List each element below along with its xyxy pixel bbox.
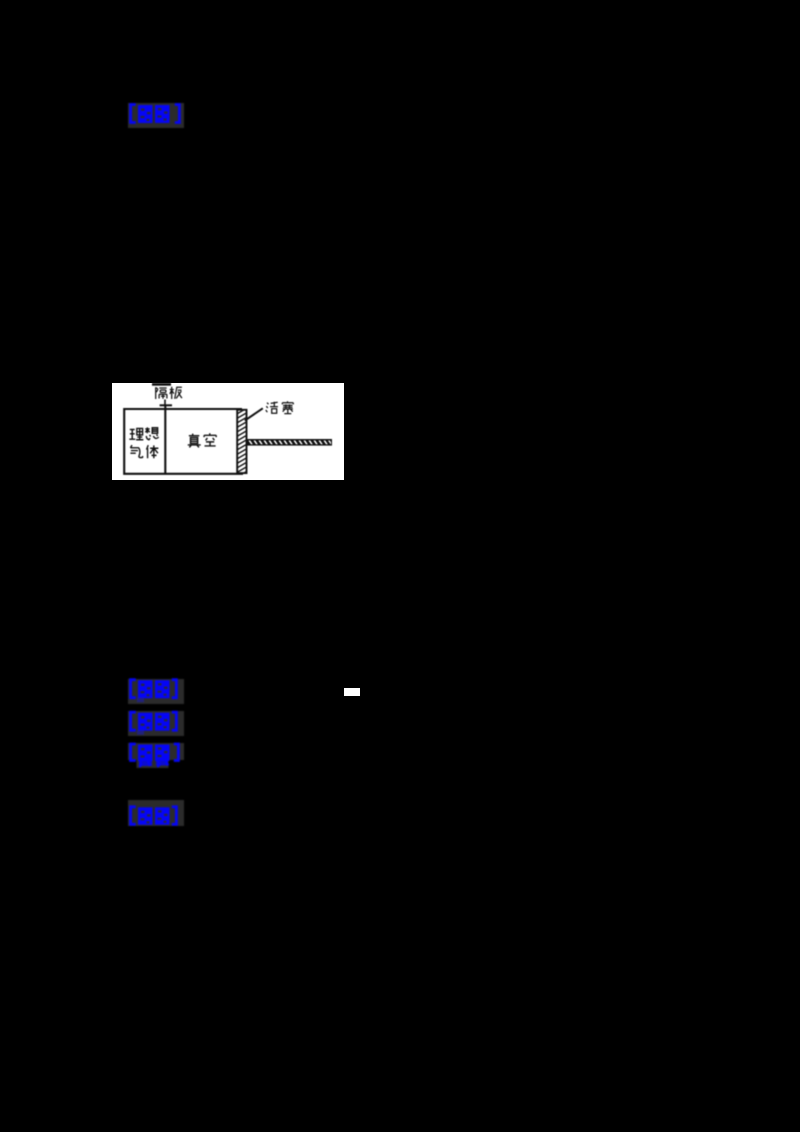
piston (hatched) (236, 408, 248, 478)
tag 【考点】 (127, 678, 185, 705)
answer tag 【点评】 (127, 102, 185, 129)
label 活塞 (piston) (266, 402, 278, 414)
tag 【解答】 (127, 799, 185, 827)
white dash (344, 688, 360, 696)
label 隔板 (partition) (156, 387, 167, 399)
piston rod (hatched) (247, 439, 332, 446)
text 理想 (129, 428, 143, 439)
leader from 隔板 to partition T-cap (164, 400, 166, 405)
partition wall (164, 405, 166, 474)
cropped text remnant at top edge (152, 383, 171, 386)
partition T-cap (160, 404, 172, 406)
tag 【分析】 (127, 742, 185, 770)
text 气体 (130, 445, 142, 458)
leader from 活塞 to piston (245, 408, 263, 420)
tag 【专题】 (127, 710, 185, 737)
text 真空 (188, 434, 201, 448)
container outline (left, top, bottom) (124, 409, 243, 474)
physics figure: container with partition, ideal gas, vacuum, piston (112, 383, 344, 480)
